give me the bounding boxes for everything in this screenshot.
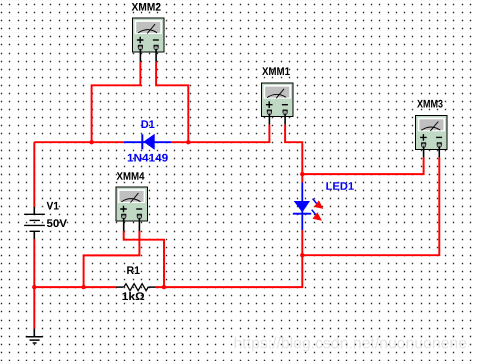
multimeter XMM2 bbox=[133, 18, 165, 52]
wire: XMM2 minus terminal to main node bbox=[156, 62, 188, 143]
label D1 bbox=[142, 120, 155, 128]
junction bbox=[186, 140, 190, 144]
wire: bottom node left (battery minus to R1) bbox=[34, 286, 116, 288]
wire: main horizontal right (diode cathode to XMM1 plus) bbox=[171, 125, 269, 143]
label LED1 bbox=[326, 182, 353, 190]
label XMM1 bbox=[262, 67, 290, 75]
value 50V bbox=[47, 219, 67, 227]
LED LED1 bbox=[293, 183, 324, 231]
multimeter XMM4 bbox=[116, 187, 148, 221]
junction bbox=[162, 285, 166, 289]
diode D1 bbox=[124, 134, 172, 150]
wire: battery minus to ground bbox=[33, 239, 35, 328]
wire: main horizontal left (battery to diode anode) bbox=[34, 141, 124, 143]
resistor R1 bbox=[116, 284, 155, 291]
battery V1 bbox=[24, 207, 45, 239]
value 1N4149 bbox=[128, 154, 168, 162]
label R1 bbox=[127, 266, 140, 274]
junction bbox=[32, 285, 36, 289]
value 1kΩ bbox=[122, 292, 144, 300]
wire: XMM4 minus terminal to bottom node left of R1 bbox=[84, 231, 140, 287]
wire: XMM4 plus terminal to bottom node right of R1 bbox=[124, 231, 164, 287]
label V1 bbox=[47, 202, 59, 210]
multimeter XMM1 bbox=[262, 83, 294, 117]
junction bbox=[300, 172, 304, 176]
wire: XMM1 minus terminal to LED anode branch bbox=[285, 125, 302, 183]
wire: LED cathode to bottom node bbox=[156, 230, 303, 287]
junction bbox=[81, 285, 85, 289]
ground bbox=[26, 329, 43, 343]
label XMM4 bbox=[117, 172, 145, 180]
wire: battery V1 top to main node bbox=[33, 142, 35, 207]
label XMM3 bbox=[417, 100, 443, 108]
junction bbox=[89, 140, 93, 144]
wire: XMM3 plus terminal to LED anode bbox=[302, 157, 423, 174]
multimeter XMM3 bbox=[416, 116, 448, 150]
wire: XMM2 plus terminal to main node bbox=[92, 62, 141, 143]
label XMM2 bbox=[132, 3, 161, 11]
junction bbox=[300, 253, 304, 257]
wire: XMM3 minus terminal to LED cathode bbox=[302, 157, 439, 255]
